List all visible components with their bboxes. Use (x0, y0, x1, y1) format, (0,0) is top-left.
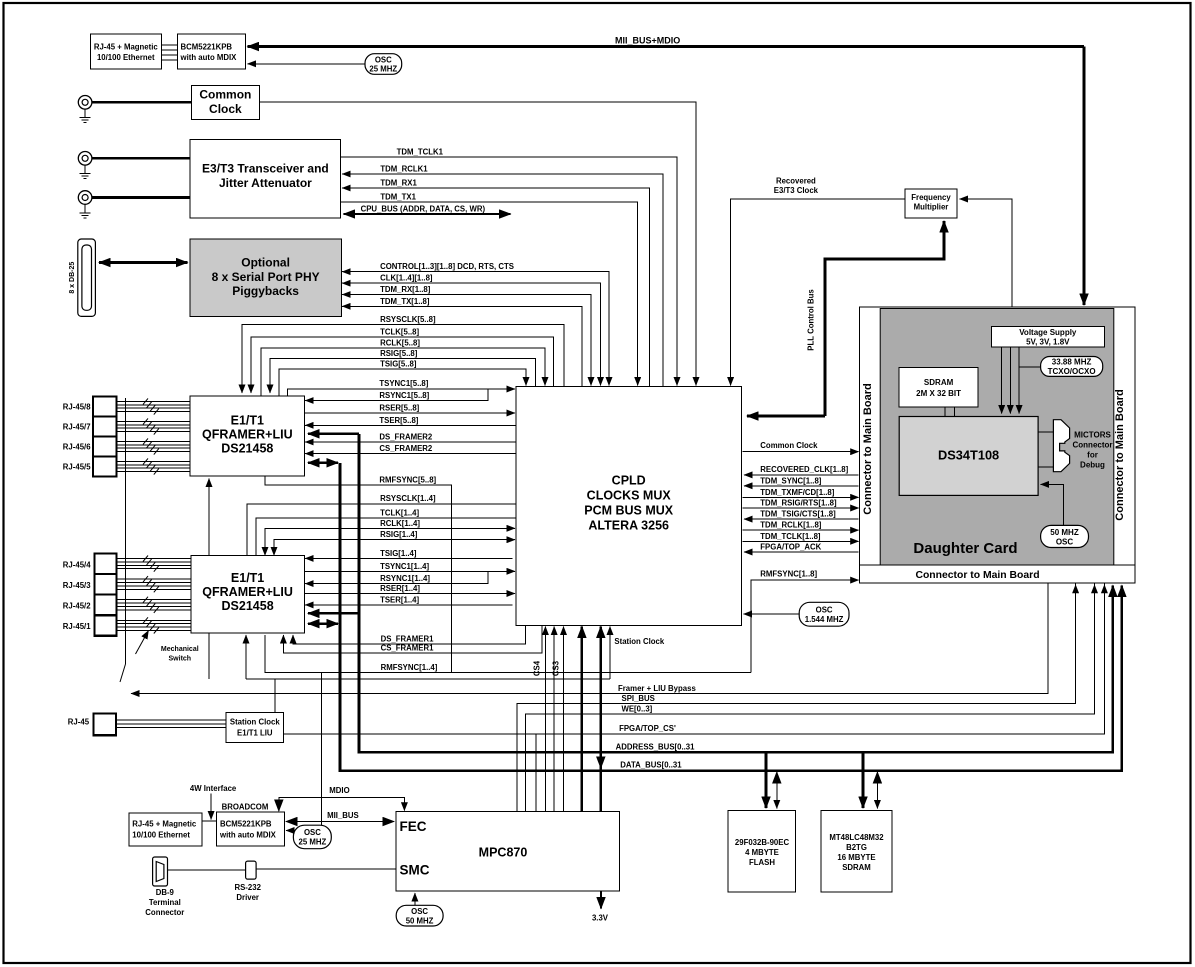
wire RSIG[5..8] (270, 358, 536, 393)
svg-text:E1/T1: E1/T1 (231, 414, 264, 428)
svg-text:OSC: OSC (375, 56, 392, 65)
svg-text:RCLK[1..4]: RCLK[1..4] (380, 519, 420, 528)
svg-text:Piggybacks: Piggybacks (232, 284, 299, 298)
bundle slash marks RJ-45/3 (143, 576, 159, 592)
svg-text:Connector to Main Board: Connector to Main Board (1114, 389, 1126, 520)
svg-text:RSIG[1..4]: RSIG[1..4] (380, 530, 418, 539)
svg-text:Daughter Card: Daughter Card (913, 540, 1017, 557)
svg-text:50 MHZ: 50 MHZ (406, 917, 434, 926)
oscillator 50 MHZ OSC (daughter) (1041, 525, 1089, 547)
svg-text:Framer + LIU Bypass: Framer + LIU Bypass (618, 684, 696, 693)
wire CPU_BUS double arrow (344, 213, 511, 215)
svg-text:TSER[1..4]: TSER[1..4] (380, 595, 419, 604)
arrowhead station clock into CPLD (609, 627, 611, 641)
wire RSER[5..8] (305, 412, 516, 414)
svg-text:25 MHZ: 25 MHZ (369, 65, 397, 74)
wire RS232 to SMC (256, 868, 396, 870)
wire data bus to SDRAM (876, 772, 878, 809)
box RJ-45 + Magnetic 10/100 Ethernet (bottom) (129, 813, 202, 846)
bundle slash marks RJ-45/8 (143, 398, 159, 414)
wire SDRAM link 1 (944, 407, 946, 417)
svg-text:CPU_BUS (ADDR, DATA, CS, WR): CPU_BUS (ADDR, DATA, CS, WR) (361, 205, 486, 214)
svg-text:RJ-45/6: RJ-45/6 (63, 443, 91, 452)
svg-text:Station Clock: Station Clock (230, 718, 280, 727)
wire address bus to FLASH (765, 752, 768, 808)
wire RJ45 to BCM (bottom) (202, 820, 217, 822)
svg-text:FPGA/TOP_CS': FPGA/TOP_CS' (619, 724, 676, 733)
wire voltage supply drop 2 (1009, 347, 1011, 413)
svg-text:RSYNC1[5..8]: RSYNC1[5..8] (379, 391, 429, 400)
svg-text:MDIO: MDIO (329, 786, 349, 795)
ground 3 (80, 204, 91, 218)
oscillator OSC 25 MHZ (top) (365, 54, 402, 75)
svg-text:RJ-45/2: RJ-45/2 (63, 602, 91, 611)
svg-text:Switch: Switch (169, 656, 192, 663)
wire voltage supply drop 3 (1018, 347, 1020, 367)
wire RJ-45 to Station Clock (3 lines) (116, 720, 226, 727)
wire TSER[1..4] (305, 604, 512, 606)
ground 2 (80, 165, 91, 179)
wire framer2-station link (208, 633, 210, 679)
wire CS_FRAMER1 (283, 625, 541, 653)
box E1/T1 QFRAMER+LIU DS21458 (lower) (191, 555, 305, 633)
svg-text:DATA_BUS[0..31: DATA_BUS[0..31 (620, 760, 682, 769)
svg-text:RECOVERED_CLK[1..8]: RECOVERED_CLK[1..8] (760, 465, 848, 474)
svg-text:RJ-45 + Magnetic: RJ-45 + Magnetic (132, 820, 197, 829)
wire framer1 bidir thick arrow (308, 461, 338, 464)
wire TSYNC1[5..8] (288, 389, 516, 396)
wire DATA_BUS to CPLD (599, 627, 602, 812)
svg-text:QFRAMER+LIU: QFRAMER+LIU (202, 585, 293, 599)
wire DS34T108 to MICTOR upper (1038, 431, 1053, 433)
wire TCLK[5..8] (251, 337, 554, 393)
switch blade (120, 664, 126, 682)
svg-text:Common: Common (199, 88, 251, 102)
wire framer1 DS thick arrow (308, 432, 359, 435)
svg-text:RJ-45/7: RJ-45/7 (63, 423, 91, 432)
wire RSYSCLK[5..8] (242, 324, 564, 393)
wire switch tap vertical (125, 398, 127, 664)
wire FPGA/TOP_CS' (284, 584, 1105, 812)
wire OSC 25MHZ to BCM (bottom) (286, 830, 294, 832)
svg-text:RJ-45/3: RJ-45/3 (63, 581, 91, 590)
wire RSYNC1[1..4] (305, 571, 488, 583)
wire OSC 25MHZ to BCM (248, 63, 366, 65)
wire MII_BUS+MDIO horizontal (248, 45, 1085, 48)
wire address bus to SDRAM (862, 752, 865, 808)
wire framer2 bidir thick arrow (308, 622, 338, 625)
svg-text:DS_FRAMER1: DS_FRAMER1 (381, 634, 435, 643)
wire RMFSYNC[5..8] (265, 477, 452, 673)
svg-text:4 MBYTE: 4 MBYTE (745, 848, 779, 857)
wire TCLK[1..4] (256, 518, 516, 556)
svg-text:E3/T3 Clock: E3/T3 Clock (774, 186, 819, 195)
svg-text:Common Clock: Common Clock (760, 441, 818, 450)
box Common Clock (191, 86, 259, 120)
wire MDIO (279, 798, 405, 811)
wire TDM_TCLK1 (341, 157, 677, 386)
svg-text:for: for (1087, 451, 1098, 460)
svg-text:RSER[1..4]: RSER[1..4] (380, 584, 420, 593)
wire TDM_SYNC[1..8] (744, 485, 859, 487)
svg-text:RJ-45/8: RJ-45/8 (63, 403, 91, 412)
svg-text:TDM_TCLK1: TDM_TCLK1 (397, 148, 444, 157)
connector RJ-45 (bottom) (93, 714, 116, 736)
connector RJ-45/4-1 stack (94, 553, 116, 635)
wire DS34T108 to MICTOR lower (1038, 466, 1053, 468)
wire bundle RJ-45/1 to framer2 (117, 620, 191, 630)
svg-text:Clock: Clock (209, 102, 242, 116)
box Daughter Card outer / connector frame (860, 307, 1135, 583)
wire RCLK[5..8] (261, 348, 545, 396)
connector to main board bottom strip divider (860, 564, 1135, 566)
box Voltage Supply 5V, 3V, 1.8V (991, 327, 1104, 348)
svg-text:TDM_RCLK[1..8]: TDM_RCLK[1..8] (760, 521, 821, 530)
svg-text:TDM_RX[1..8]: TDM_RX[1..8] (380, 285, 431, 294)
svg-text:TSYNC1[5..8]: TSYNC1[5..8] (379, 379, 428, 388)
wire CS3 CPLD-MPC870 (563, 627, 565, 812)
svg-text:Optional: Optional (241, 256, 290, 270)
svg-text:OSC: OSC (1056, 537, 1074, 546)
svg-text:TCLK[5..8]: TCLK[5..8] (380, 327, 419, 336)
wire TDM_RX[1..8] (342, 295, 591, 386)
svg-text:RJ-45/5: RJ-45/5 (63, 463, 91, 472)
svg-text:DS34T108: DS34T108 (938, 448, 999, 463)
wire 50MHZ OSC to DS34T108 (1041, 484, 1064, 525)
wire RSIG[1..4] (274, 540, 515, 556)
wire RSER[1..4] (305, 593, 516, 595)
wire Recovered E3/T3 Clock (731, 199, 905, 386)
svg-text:CS_FRAMER2: CS_FRAMER2 (379, 444, 433, 453)
wire TDM_TSIG/CTS[1..8] (744, 518, 859, 520)
wire OSC 25MHZ tap vertical (321, 672, 323, 825)
box MPC870 (396, 812, 620, 892)
wire SDRAM link 2 (953, 407, 955, 417)
svg-text:CPLD: CPLD (612, 474, 646, 488)
wire ADDRESS_BUS[0..31] (359, 434, 1113, 752)
svg-text:PLL Control Bus: PLL Control Bus (807, 289, 816, 351)
wire freq multiplier input from daughter (960, 199, 1013, 307)
svg-text:RSYNC1[1..4]: RSYNC1[1..4] (380, 574, 430, 583)
wire TSYNC1[1..4] (305, 570, 516, 572)
wire bundle RJ-45/8 to framer1 (116, 401, 190, 411)
svg-text:Debug: Debug (1080, 461, 1105, 470)
svg-text:10/100 Ethernet: 10/100 Ethernet (97, 53, 155, 62)
svg-text:TCLK[1..4]: TCLK[1..4] (380, 508, 419, 517)
wire framer1-framer2 link (208, 479, 210, 556)
bundle slash marks RJ-45/6 (143, 438, 159, 454)
wire DATA_BUS[0..31] (340, 463, 1122, 771)
wire TDM_TCLK[1..8] (743, 540, 859, 542)
svg-text:50 MHZ: 50 MHZ (1050, 528, 1079, 537)
svg-text:Connector to Main Board: Connector to Main Board (862, 383, 874, 514)
svg-text:TSIG[5..8]: TSIG[5..8] (380, 359, 417, 368)
svg-text:TCXO/OCXO: TCXO/OCXO (1048, 367, 1096, 376)
svg-text:RJ-45: RJ-45 (68, 718, 90, 727)
svg-text:1.544 MHZ: 1.544 MHZ (805, 615, 844, 624)
svg-text:RMFSYNC[5..8]: RMFSYNC[5..8] (379, 475, 436, 484)
svg-text:TDM_TCLK[1..8]: TDM_TCLK[1..8] (760, 532, 821, 541)
wire bundle RJ-45/5 to framer1 (116, 461, 190, 471)
svg-text:Recovered: Recovered (776, 176, 816, 185)
oscillator OSC 1.544 MHZ (799, 602, 849, 626)
svg-text:SPI_BUS: SPI_BUS (622, 694, 655, 703)
wire voltage supply drop 1 (1001, 347, 1003, 413)
svg-text:CLK[1..4][1..8]: CLK[1..4][1..8] (380, 274, 433, 283)
wire station clock net (246, 627, 610, 713)
svg-text:FLASH: FLASH (749, 858, 775, 867)
svg-text:Voltage Supply: Voltage Supply (1019, 328, 1077, 337)
wire Common Clock to CPLD (260, 102, 696, 385)
oscillator OSC 50 MHZ (396, 905, 443, 926)
svg-text:PCM BUS MUX: PCM BUS MUX (584, 504, 674, 518)
connector MICTORS (1053, 420, 1069, 472)
wire bundle RJ-45/2 to framer2 (117, 600, 191, 610)
wire bundle RJ-45/3 to framer2 (117, 579, 191, 589)
wire MII_BUS+MDIO vertical to daughter card (1083, 47, 1086, 306)
box Station Clock E1/T1 LIU (226, 713, 284, 743)
svg-text:FEC: FEC (400, 819, 427, 834)
svg-text:TDM_TX1: TDM_TX1 (380, 193, 416, 202)
wire RCLK[1..4] (265, 528, 515, 555)
wire Common Clock (right) (743, 451, 859, 453)
wire coax2 to E3/T3 (92, 157, 190, 160)
svg-text:TDM_TXMF/CD[1..8]: TDM_TXMF/CD[1..8] (760, 488, 834, 497)
svg-text:MPC870: MPC870 (479, 846, 528, 860)
svg-text:CS_FRAMER1: CS_FRAMER1 (381, 644, 435, 653)
svg-text:Frequency: Frequency (911, 193, 951, 202)
wire RSYSCLK[1..4] (247, 504, 516, 555)
box BCM5221KPB with auto MDIX (top) (177, 34, 245, 69)
wire WE[0..3] (526, 584, 1095, 812)
svg-text:DB-9: DB-9 (156, 888, 175, 897)
svg-text:E3/T3 Transceiver and: E3/T3 Transceiver and (202, 162, 329, 176)
connector DB-9 (153, 857, 168, 886)
wire TDM_TXMF/CD[1..8] (743, 496, 859, 498)
wire OSC 1.544MHZ to CPLD (744, 613, 800, 615)
svg-text:MII_BUS+MDIO: MII_BUS+MDIO (615, 36, 680, 46)
svg-text:25 MHZ: 25 MHZ (299, 838, 327, 847)
wire TDM_TX[1..8] (342, 306, 582, 386)
svg-text:10/100 Ethernet: 10/100 Ethernet (132, 831, 190, 840)
svg-text:8 x DB-25: 8 x DB-25 (69, 262, 76, 294)
wire SPI_BUS (517, 584, 1076, 812)
wire CS_FRAMER2 (305, 453, 516, 455)
wire TDM_RCLK[1..8] (743, 529, 859, 531)
coax connector 2 (78, 152, 92, 166)
oscillator 33.88 MHZ TCXO/OCXO (1041, 357, 1103, 377)
svg-text:Driver: Driver (236, 893, 259, 902)
svg-text:SDRAM: SDRAM (842, 863, 871, 872)
svg-text:OSC: OSC (816, 606, 833, 615)
svg-text:Multiplier: Multiplier (914, 203, 949, 212)
svg-text:B2TG: B2TG (846, 843, 867, 852)
coax connector 1 (78, 96, 92, 110)
svg-text:FPGA/TOP_ACK: FPGA/TOP_ACK (760, 543, 821, 552)
wire TSIG[1..4] (305, 557, 512, 559)
svg-text:MT48LC48M32: MT48LC48M32 (829, 833, 884, 842)
svg-text:SMC: SMC (400, 863, 430, 878)
wire TDM_TX1 (341, 202, 638, 386)
svg-text:8 x Serial Port PHY: 8 x Serial Port PHY (212, 270, 320, 284)
svg-text:WE[0..3]: WE[0..3] (622, 704, 653, 713)
svg-text:BROADCOM: BROADCOM (222, 803, 269, 812)
svg-text:16 MBYTE: 16 MBYTE (837, 853, 875, 862)
svg-text:RSYSCLK[5..8]: RSYSCLK[5..8] (380, 315, 436, 324)
ground 1 (80, 109, 91, 123)
connector 8 x DB-25 outer (78, 239, 96, 316)
wire RMFSYNC[1..4] (265, 635, 751, 672)
svg-text:RMFSYNC[1..4]: RMFSYNC[1..4] (381, 663, 438, 672)
box RJ-45 + Magnetic 10/100 Ethernet (top) (90, 34, 161, 69)
wire ADDRESS_BUS to CPLD (581, 627, 584, 812)
wire CONTROL[1..3][1..8] (342, 272, 609, 386)
wire bundle RJ-45/6 to framer1 (116, 441, 190, 451)
svg-text:CS3: CS3 (552, 660, 561, 676)
svg-text:Mechanical: Mechanical (161, 646, 199, 653)
wire DB-25 to Optional double arrow (99, 261, 188, 264)
wire DS_FRAMER2 (305, 441, 516, 443)
svg-text:4W Interface: 4W Interface (190, 784, 237, 793)
wire MII_BUS (286, 821, 394, 823)
bundle slash marks RJ-45/1 (143, 617, 159, 633)
wire mid CPLD-MPC870 (553, 627, 555, 812)
wire TCXO to DS34T108 (1019, 367, 1041, 414)
svg-text:E1/T1 LIU: E1/T1 LIU (237, 729, 273, 738)
svg-text:3.3V: 3.3V (592, 914, 609, 923)
svg-text:CONTROL[1..3][1..8] DCD, RTS,: CONTROL[1..3][1..8] DCD, RTS, CTS (380, 262, 514, 271)
wire DS_FRAMER1 (293, 625, 526, 644)
wire DATA_BUS junction arrow (599, 753, 602, 768)
box RS-232 Driver (246, 861, 257, 879)
connector DB-9 inner D (156, 862, 164, 882)
wire CLK[1..4][1..8] (342, 283, 600, 385)
bundle slash marks RJ-45/7 (143, 418, 159, 434)
svg-text:TDM_SYNC[1..8]: TDM_SYNC[1..8] (760, 476, 821, 485)
svg-text:RSER[5..8]: RSER[5..8] (379, 404, 419, 413)
svg-text:BCM5221KPB: BCM5221KPB (181, 43, 233, 52)
bundle slash marks RJ-45/2 (143, 597, 159, 613)
svg-text:OSC: OSC (411, 907, 428, 916)
svg-text:2M X 32 BIT: 2M X 32 BIT (916, 389, 961, 398)
box BCM5221KPB with auto MDIX (bottom) (217, 812, 285, 846)
wire coax3 to E3/T3 (92, 196, 190, 199)
wire PLL Control Bus (747, 415, 825, 418)
svg-text:with auto MDIX: with auto MDIX (180, 53, 238, 62)
svg-text:BCM5221KPB: BCM5221KPB (220, 820, 272, 829)
wire bundle RJ-45/4 to framer2 (117, 559, 191, 569)
svg-text:CS4: CS4 (533, 660, 542, 676)
bundle slash marks RJ-45/4 (143, 556, 159, 572)
connector 8 x DB-25 inner (82, 245, 92, 310)
wire CS4 CPLD-MPC870 (544, 627, 546, 812)
svg-text:TSYNC1[1..4]: TSYNC1[1..4] (380, 562, 429, 571)
svg-text:TDM_RSIG/RTS[1..8]: TDM_RSIG/RTS[1..8] (760, 499, 837, 508)
svg-text:RJ-45/4: RJ-45/4 (63, 560, 91, 569)
wire OSC 50MHZ to MPC870 (414, 893, 416, 905)
svg-text:TSIG[1..4]: TSIG[1..4] (380, 549, 417, 558)
wire RMFSYNC[1..8] (751, 580, 859, 672)
box SDRAM 2M X 32 BIT (899, 368, 978, 407)
wire RSYNC1[5..8] (305, 389, 488, 401)
arrowhead into framer2 bottom (245, 635, 247, 660)
wire TDM_RSIG/RTS[1..8] (743, 507, 859, 509)
svg-text:RS-232: RS-232 (234, 883, 261, 892)
svg-text:Terminal: Terminal (149, 898, 181, 907)
box DS34T108 (899, 417, 1038, 496)
svg-text:TDM_RX1: TDM_RX1 (380, 179, 417, 188)
oscillator OSC 25 MHZ (bottom) (293, 825, 331, 849)
svg-text:ADDRESS_BUS[0..31: ADDRESS_BUS[0..31 (616, 743, 696, 752)
box E3/T3 Transceiver and Jitter Attenuator (190, 140, 341, 219)
svg-text:DS21458: DS21458 (221, 442, 273, 456)
svg-text:Connector to Main Board: Connector to Main Board (915, 570, 1039, 581)
box 29F032B-90EC 4 MBYTE FLASH (728, 810, 796, 892)
wire FPGA/TOP_ACK (744, 551, 859, 553)
svg-text:TDM_TX[1..8]: TDM_TX[1..8] (380, 297, 430, 306)
wire 3.3V (600, 891, 602, 908)
svg-text:MICTORS: MICTORS (1074, 431, 1111, 440)
arrowhead SPI_BUS into connector (1075, 585, 1077, 600)
op-amp CPLD CLOCKS MUX PCM BUS MUX ALTERA 3256 (516, 387, 742, 626)
svg-text:RMFSYNC[1..8]: RMFSYNC[1..8] (760, 569, 817, 578)
svg-text:5V, 3V, 1.8V: 5V, 3V, 1.8V (1026, 338, 1070, 347)
svg-text:Connector: Connector (145, 908, 184, 917)
box E1/T1 QFRAMER+LIU DS21458 (upper) (190, 396, 304, 476)
bundle slash marks RJ-45/5 (143, 458, 159, 474)
svg-text:TDM_RCLK1: TDM_RCLK1 (380, 165, 428, 174)
svg-text:with auto MDIX: with auto MDIX (219, 831, 277, 840)
box Optional 8 x Serial Port PHY Piggybacks (190, 239, 342, 316)
coax connector 3 (78, 191, 92, 205)
svg-text:Station Clock: Station Clock (614, 637, 664, 646)
svg-text:33.88 MHZ: 33.88 MHZ (1052, 358, 1092, 367)
svg-text:29F032B-90EC: 29F032B-90EC (735, 838, 790, 847)
wire magnetics links (4 lines) (162, 45, 178, 60)
box MT48LC48M32 B2TG 16 MBYTE SDRAM (821, 810, 892, 892)
wire RECOVERED_CLK[1..8] (744, 474, 859, 476)
svg-text:SDRAM: SDRAM (924, 378, 954, 387)
svg-text:OSC: OSC (304, 828, 321, 837)
svg-text:TSER[5..8]: TSER[5..8] (379, 416, 418, 425)
svg-text:RSIG[5..8]: RSIG[5..8] (380, 349, 418, 358)
wire 4W interface arrow (210, 794, 212, 820)
wire data bus to FLASH (776, 772, 778, 809)
svg-text:CLOCKS MUX: CLOCKS MUX (587, 489, 672, 503)
svg-text:TDM_TSIG/CTS[1..8]: TDM_TSIG/CTS[1..8] (760, 510, 836, 519)
svg-text:DS_FRAMER2: DS_FRAMER2 (379, 433, 433, 442)
arrowhead WE into connector (1094, 585, 1096, 600)
arrowhead FPGA/TOP_CS' into connector (1103, 585, 1105, 600)
svg-text:E1/T1: E1/T1 (231, 571, 264, 585)
wire framer2 DS thick arrow (308, 612, 359, 615)
svg-text:Jitter Attenuator: Jitter Attenuator (219, 176, 312, 190)
svg-text:Connector: Connector (1073, 441, 1113, 450)
wire DB9 to RS232 (168, 869, 246, 871)
svg-text:RJ-45/1: RJ-45/1 (63, 622, 91, 631)
mechanical switch pointer arrow (136, 631, 149, 655)
wire Framer + LIU Bypass (131, 584, 1048, 694)
svg-text:DS21458: DS21458 (222, 599, 274, 613)
box Frequency Multiplier (905, 189, 957, 218)
wire TDM_RX1 (342, 188, 649, 386)
wire TDM_RCLK1 (342, 174, 663, 386)
wire TSIG[5..8] (279, 369, 526, 396)
wire TSER[5..8] (305, 424, 516, 426)
svg-text:QFRAMER+LIU: QFRAMER+LIU (202, 428, 293, 442)
connector RJ-45/8-5 stack (93, 397, 116, 477)
svg-text:RCLK[5..8]: RCLK[5..8] (380, 338, 420, 347)
